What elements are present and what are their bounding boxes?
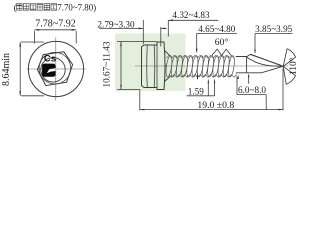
green highlight patch [115, 34, 186, 92]
svg-text:60°: 60° [215, 37, 229, 48]
threads [165, 55, 237, 77]
svg-text:(: ( [14, 3, 17, 13]
svg-text:7.70~7.80): 7.70~7.80) [57, 3, 96, 13]
drill point [247, 54, 283, 73]
svg-text:4.65~4.80: 4.65~4.80 [198, 24, 236, 34]
svg-text:Cs: Cs [44, 54, 56, 65]
svg-text:110°: 110° [288, 57, 299, 75]
head top view centerlines [27, 38, 87, 101]
svg-text:6.0~8.0: 6.0~8.0 [238, 85, 266, 95]
inner circle [41, 58, 65, 82]
svg-text:10.67~11.43: 10.67~11.43 [102, 41, 112, 87]
svg-text:19.0 ±0.8: 19.0 ±0.8 [197, 100, 234, 111]
svg-text:7.78~7.92: 7.78~7.92 [35, 19, 75, 30]
side view centerline [135, 65, 288, 67]
svg-text:8.64min: 8.64min [1, 53, 12, 86]
hexagon inscribed circle [39, 52, 71, 84]
svg-text:2.79~3.30: 2.79~3.30 [97, 19, 135, 29]
svg-text:4.32~4.83: 4.32~4.83 [172, 10, 210, 20]
head outer circle (flange) [28, 41, 83, 96]
svg-text:3.85~3.95: 3.85~3.95 [255, 24, 293, 34]
note (plating) CJK text approximated [17, 4, 57, 11]
svg-text:1.59: 1.59 [188, 86, 204, 96]
head facet lines [147, 42, 157, 90]
pilot section [236, 57, 261, 73]
logo glyph [42, 64, 55, 77]
110 degree angle mark [283, 49, 295, 85]
hex head side profile [142, 42, 166, 90]
flange-to-shank bevel [165, 51, 171, 82]
hexagon [37, 52, 72, 86]
